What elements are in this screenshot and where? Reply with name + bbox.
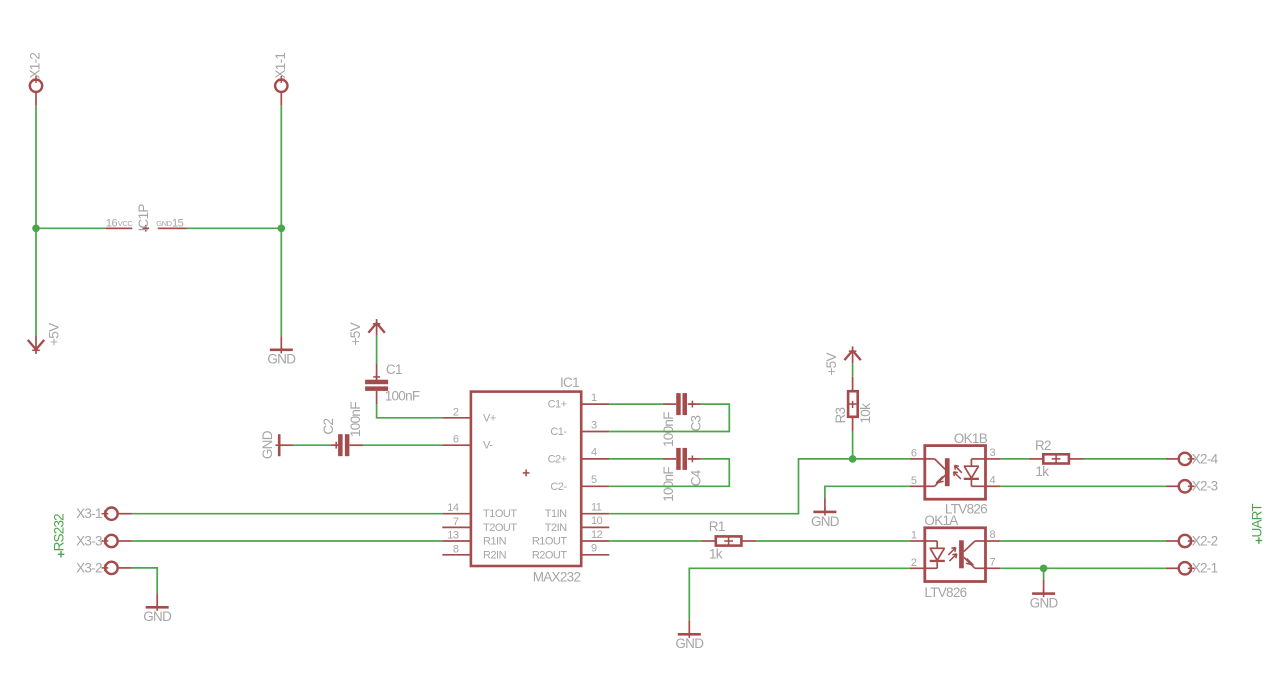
junction at X1-1 column: [278, 225, 286, 233]
power symbol +5V (up) above R3: [824, 347, 861, 376]
OK1A light arrows: [948, 548, 956, 562]
svg-text:C1+: C1+: [548, 399, 567, 411]
svg-text:IC1P: IC1P: [136, 204, 151, 232]
svg-text:OK1B: OK1B: [954, 431, 988, 446]
svg-text:C2: C2: [321, 419, 336, 435]
pin 7 T2OUT: [442, 516, 517, 534]
svg-text:C4: C4: [688, 469, 703, 486]
svg-text:3: 3: [591, 419, 597, 431]
svg-text:T1OUT: T1OUT: [483, 508, 517, 520]
svg-text:C1-: C1-: [550, 426, 567, 438]
wire GND down from junction: [280, 228, 282, 336]
OK1A pin 8: [986, 529, 1001, 541]
pin 6 V-: [442, 434, 493, 452]
connector pin X2-1: [1166, 561, 1218, 576]
svg-text:+5V: +5V: [46, 323, 61, 346]
svg-text:7: 7: [990, 556, 996, 568]
pin 1 C1+: [548, 392, 610, 411]
svg-text:GND: GND: [1030, 596, 1059, 611]
svg-text:15: 15: [172, 218, 184, 230]
svg-text:GND: GND: [811, 514, 840, 529]
svg-text:100nF: 100nF: [348, 402, 363, 437]
svg-text:V-: V-: [483, 440, 493, 452]
svg-text:R1IN: R1IN: [483, 536, 507, 548]
OK1A LED input: [959, 540, 987, 568]
svg-text:GND: GND: [156, 219, 172, 228]
svg-text:R2OUT: R2OUT: [532, 549, 568, 561]
svg-text:16: 16: [106, 218, 118, 230]
capacitor C1 100nF: [365, 362, 420, 404]
svg-text:1: 1: [591, 392, 597, 404]
wire pin 4 to C4: [609, 458, 663, 460]
svg-text:VCC: VCC: [118, 219, 134, 228]
capacitor C3 100nF: [661, 393, 704, 447]
power symbol +5V (up) above C1: [348, 319, 385, 345]
connector pin X1-1: [273, 53, 288, 106]
ground symbol GND below OK1B pin5: [811, 498, 840, 529]
svg-text:100nF: 100nF: [385, 388, 420, 403]
svg-text:GND: GND: [260, 430, 275, 459]
pin 4 C2+: [548, 447, 610, 466]
wire R1OUT to R1: [609, 540, 701, 542]
svg-text:GND: GND: [143, 609, 172, 624]
ground symbol GND at C2 (rotated): [260, 430, 293, 459]
OK1B pin 3: [986, 447, 1001, 459]
wire junction to OK1B pin 6: [853, 458, 910, 460]
pin 12 R1OUT: [532, 529, 609, 548]
wire OK1A pin 2 to GND: [689, 568, 909, 620]
svg-text:LTV826: LTV826: [924, 585, 966, 600]
svg-text:X2-2: X2-2: [1192, 533, 1218, 548]
IC1 power pins 16 VCC / 15 GND: [106, 204, 187, 232]
svg-text:OK1A: OK1A: [924, 513, 958, 528]
IC U1 MAX232 body: [471, 375, 581, 585]
svg-text:3: 3: [990, 447, 996, 459]
pin 10 T2IN: [545, 515, 610, 534]
pin 14 T1OUT: [442, 502, 517, 520]
wire X3-3 to pin 13: [132, 540, 442, 542]
svg-text:1k: 1k: [1035, 464, 1049, 479]
svg-text:6: 6: [453, 434, 459, 446]
wire pin 1 to C3: [609, 403, 663, 405]
svg-text:14: 14: [447, 502, 459, 514]
ground symbol GND below R1 area: [675, 621, 704, 652]
wire net VCC vertical from X1-2: [35, 106, 37, 229]
wire OK1B pin 4 to X2-3: [1001, 485, 1166, 487]
net label UART: [1250, 504, 1265, 544]
pin 2 V+: [442, 406, 496, 424]
svg-text:X1-2: X1-2: [28, 53, 43, 79]
capacitor C2 100nF: [321, 402, 363, 456]
connector pin X1-2: [28, 53, 43, 106]
optocoupler OK1A body: [924, 513, 985, 600]
connector pin X3-3: [76, 533, 132, 548]
wire net horizontal X1-2 to X1-1: [36, 227, 281, 229]
wire +5V to R3: [852, 363, 854, 377]
svg-text:V+: V+: [483, 412, 496, 424]
pin 3 C1-: [550, 419, 609, 438]
svg-text:1: 1: [911, 530, 917, 542]
wire R1 to OK1A pin 1: [756, 540, 910, 542]
svg-text:GND: GND: [267, 352, 296, 367]
resistor R2 1k: [1029, 438, 1084, 479]
svg-text:X3-2: X3-2: [76, 560, 102, 575]
svg-text:R1OUT: R1OUT: [532, 536, 568, 548]
wire GND to C2: [293, 444, 331, 446]
svg-text:100nF: 100nF: [661, 467, 676, 502]
OK1B pin 4: [986, 474, 1001, 486]
svg-text:100nF: 100nF: [661, 412, 676, 447]
wire OK1B pin 3 to R2: [1001, 458, 1029, 460]
ground symbol GND below X1-1: [267, 336, 296, 367]
connector pin X3-2: [76, 560, 132, 575]
capacitor C4 100nF: [661, 448, 704, 502]
wire C4 to pin 5: [609, 459, 729, 486]
OK1B pin 6: [910, 447, 925, 459]
svg-text:10: 10: [591, 515, 603, 527]
svg-text:8: 8: [990, 529, 996, 541]
wire +5V to C1: [376, 336, 378, 363]
resistor R1 1k: [701, 519, 756, 561]
junction on X2-1 net: [1040, 565, 1048, 573]
svg-text:X3-1: X3-1: [76, 506, 102, 521]
connector pin X2-3: [1166, 479, 1218, 494]
svg-text:T2IN: T2IN: [545, 522, 567, 534]
wire R3 to junction: [852, 431, 854, 459]
optocoupler OK1B body: [925, 431, 988, 516]
svg-text:X2-3: X2-3: [1192, 479, 1218, 494]
svg-text:UART: UART: [1250, 504, 1265, 538]
wire +5V down from junction: [35, 228, 37, 336]
wire OK1A pin 8 to X2-2: [1001, 540, 1166, 542]
ground symbol GND below X2-1 net: [1030, 580, 1059, 611]
svg-text:C2-: C2-: [550, 481, 567, 493]
svg-text:R1: R1: [709, 519, 725, 534]
pin 9 R2OUT: [532, 543, 609, 562]
svg-text:13: 13: [447, 530, 459, 542]
power symbol +5V (down) at X1-2 column: [28, 323, 62, 354]
OK1A pin 2: [910, 557, 925, 569]
svg-text:4: 4: [990, 474, 996, 486]
wire C1 to V+ pin 2: [377, 404, 443, 418]
wire junction to GND at X2-1 net: [1043, 568, 1045, 580]
svg-text:X3-3: X3-3: [76, 533, 102, 548]
junction at R3 / OK1B net: [849, 455, 857, 463]
OK1B light arrows: [954, 465, 962, 479]
svg-text:5: 5: [911, 475, 917, 487]
net label RS232: [51, 514, 66, 558]
svg-text:C2+: C2+: [548, 453, 567, 465]
wire X3-1 to pin 14: [132, 513, 442, 515]
wire OK1B pin 5 to GND: [825, 486, 910, 498]
junction at X1-2 column: [32, 225, 40, 233]
svg-text:MAX232: MAX232: [533, 569, 581, 584]
wire X3-2 to GND: [132, 568, 157, 594]
svg-text:+5V: +5V: [348, 322, 363, 345]
OK1A pin 7: [986, 556, 1001, 568]
svg-text:7: 7: [453, 516, 459, 528]
svg-text:T2OUT: T2OUT: [483, 522, 517, 534]
svg-text:R2: R2: [1035, 438, 1051, 453]
svg-text:9: 9: [591, 543, 597, 555]
svg-text:X1-1: X1-1: [273, 53, 288, 79]
svg-text:RS232: RS232: [51, 514, 66, 552]
OK1A photodiode output: [923, 541, 944, 568]
svg-text:T1IN: T1IN: [545, 508, 567, 520]
svg-text:6: 6: [911, 447, 917, 459]
OK1B photodiode output: [964, 459, 987, 486]
OK1A pin 1: [910, 530, 925, 542]
svg-text:11: 11: [591, 502, 602, 514]
OK1B pin 5: [910, 475, 925, 487]
wire R2 to X2-4: [1084, 458, 1166, 460]
svg-text:8: 8: [453, 543, 459, 555]
svg-text:2: 2: [453, 406, 459, 418]
svg-text:C3: C3: [688, 415, 703, 431]
ground symbol GND below X3-2: [143, 594, 172, 625]
svg-text:X2-1: X2-1: [1192, 561, 1218, 576]
resistor R3 10k: [833, 377, 873, 432]
svg-text:4: 4: [591, 447, 597, 459]
svg-text:C1: C1: [386, 362, 402, 377]
connector pin X3-1: [76, 506, 132, 521]
wire C3 to pin 3: [609, 404, 729, 431]
svg-text:IC1: IC1: [560, 375, 579, 390]
svg-text:1k: 1k: [709, 546, 723, 561]
svg-text:5: 5: [591, 474, 597, 486]
wire OK1A pin 7 to X2-1: [1001, 567, 1166, 569]
wire T1IN to junction: [609, 459, 852, 514]
svg-text:X2-4: X2-4: [1192, 451, 1219, 466]
pin 13 R1IN: [442, 530, 506, 548]
svg-text:R3: R3: [833, 407, 848, 423]
pin 11 T1IN: [545, 502, 610, 521]
pin 8 R2IN: [442, 543, 506, 561]
svg-text:GND: GND: [675, 636, 704, 651]
wire net GND vertical from X1-1: [280, 106, 282, 229]
svg-text:2: 2: [911, 557, 917, 569]
svg-text:12: 12: [591, 529, 603, 541]
svg-text:R2IN: R2IN: [483, 549, 507, 561]
pin 5 C2-: [550, 474, 609, 493]
svg-text:+5V: +5V: [824, 353, 839, 376]
wire C2 to V- pin 6: [363, 444, 442, 446]
OK1B LED input: [923, 458, 949, 486]
svg-text:10k: 10k: [858, 403, 873, 424]
connector pin X2-2: [1166, 533, 1218, 548]
connector pin X2-4: [1166, 451, 1219, 466]
